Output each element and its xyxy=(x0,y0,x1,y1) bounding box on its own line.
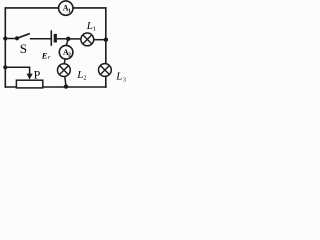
junction node on bottom wire xyxy=(64,84,68,88)
node on left wire at rheostat tap xyxy=(3,65,7,69)
svg-text:P: P xyxy=(34,67,41,81)
wire middle branch left (to switch) xyxy=(5,38,17,40)
wire rheostat tap xyxy=(5,67,29,74)
wire node to lamp L1 xyxy=(68,38,81,40)
lamp L3 xyxy=(99,64,127,84)
wire top xyxy=(5,7,106,9)
svg-text:1: 1 xyxy=(93,25,96,32)
svg-text:2: 2 xyxy=(68,53,71,59)
wire right xyxy=(105,7,107,88)
ammeter A1 xyxy=(59,1,73,15)
node on left wire at switch branch xyxy=(3,36,7,40)
lamp L2 xyxy=(58,64,87,82)
svg-text:S: S xyxy=(20,41,27,56)
wire switch to battery xyxy=(30,38,51,40)
svg-text:E: E xyxy=(41,51,48,61)
wire lamp L1 to right wire xyxy=(94,39,106,41)
lamp L1 xyxy=(81,20,96,46)
svg-text:3: 3 xyxy=(123,77,126,83)
wire node down to ammeter A2 xyxy=(66,39,68,46)
wire ammeter A2 to lamp L2 xyxy=(64,59,65,64)
svg-text:L: L xyxy=(115,71,122,83)
svg-text:L: L xyxy=(86,20,93,32)
battery E,r xyxy=(41,30,56,61)
rheostat P xyxy=(16,67,42,87)
wire lamp L2 to bottom wire xyxy=(65,76,66,86)
wire bottom xyxy=(5,86,107,88)
wire battery to node xyxy=(57,38,68,40)
svg-text:2: 2 xyxy=(83,75,86,82)
wire left xyxy=(4,7,6,88)
ammeter A2 xyxy=(59,45,73,59)
svg-text:1: 1 xyxy=(68,8,71,14)
junction node on right wire xyxy=(104,38,108,42)
svg-text:r: r xyxy=(48,54,51,61)
svg-text:L: L xyxy=(76,69,83,81)
junction node after battery xyxy=(66,37,70,41)
switch S xyxy=(15,34,30,57)
